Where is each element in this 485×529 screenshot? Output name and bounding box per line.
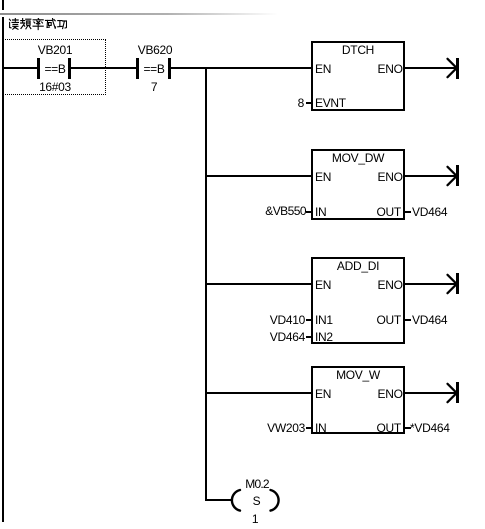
- box U2 pin OUT: [377, 206, 401, 218]
- wire: trunk branch to box U4 (MOV_W): [205, 392, 312, 394]
- coil M0.2 label: [227, 478, 287, 490]
- box U4 pin EN: [315, 388, 331, 400]
- contact VB620 label: [125, 44, 185, 56]
- contact VB201 right bar: [68, 58, 71, 79]
- coil operand 1: [225, 513, 285, 525]
- network separator line: [0, 13, 278, 15]
- box U4 pin OUT: [377, 422, 401, 434]
- box U3 IN1 operand VD410: [270, 314, 305, 326]
- wire: U4 OUT pin stub: [405, 427, 411, 429]
- wire: U2 OUT pin stub: [405, 211, 411, 213]
- box U3 OUT operand VD464: [412, 314, 447, 326]
- open-rung arrow after U3: [456, 273, 459, 294]
- 功: [58, 21, 62, 27]
- wire: U3 OUT pin stub: [405, 319, 411, 321]
- box U4 IN operand VW203: [267, 422, 305, 434]
- box U4 MOV_W: [311, 366, 405, 434]
- open-rung arrow after U1: [456, 58, 459, 79]
- box U2 MOV_DW: [311, 149, 405, 220]
- wire: U4 IN pin stub: [306, 427, 311, 429]
- box U2 pin EN: [315, 171, 331, 183]
- coil S text: [227, 495, 287, 507]
- wire: vertical trunk junction line: [205, 67, 207, 501]
- box U3 pin ENO: [378, 279, 403, 291]
- wire: U3 ENO output: [405, 283, 457, 285]
- open-rung arrow after U4: [456, 382, 459, 403]
- box U3 pin EN: [315, 279, 331, 291]
- box U1 EVNT operand 8: [298, 97, 304, 109]
- wire: trunk branch to coil: [205, 499, 231, 501]
- contact VB620 left bar: [136, 58, 139, 79]
- wire: stub of previous network's left power rail: [2, 0, 4, 10]
- box U3 pin OUT: [377, 314, 401, 326]
- box U1 pin EVNT: [315, 97, 346, 109]
- wire: EVNT pin stub: [306, 102, 311, 104]
- selection box (dashed) around contact VB201: [3, 39, 106, 95]
- box U2 title MOV_DW: [313, 152, 403, 164]
- box U4 title MOV_W: [313, 369, 403, 381]
- 频: [21, 19, 25, 29]
- box U4 OUT operand *VD464: [410, 422, 450, 434]
- box U1 DTCH: [311, 41, 405, 111]
- wire: U1 ENO output: [405, 67, 457, 69]
- box U3 pin IN2: [315, 331, 333, 343]
- box U1 title DTCH: [313, 44, 403, 56]
- box U1 pin EN: [315, 63, 331, 75]
- box U3 title ADD_DI: [313, 260, 403, 272]
- wire: trunk branch to box U2 (MOV_DW): [205, 175, 312, 177]
- contact VB620 compare text ==B: [141, 63, 167, 75]
- box U2 pin IN: [315, 206, 326, 218]
- contact VB201 operand 16#03: [25, 81, 85, 93]
- coil set (S): [229, 488, 281, 513]
- wire: U2 IN pin stub: [306, 211, 311, 213]
- box U3 ADD_DI: [311, 257, 405, 344]
- box U4 pin ENO: [378, 388, 403, 400]
- wire: contact VB201 to contact VB620: [71, 67, 137, 69]
- box U2 pin ENO: [378, 171, 403, 183]
- left power rail: [2, 17, 4, 522]
- box U3 IN2 operand VD464: [270, 331, 305, 343]
- wire: contact VB620 to box U1 (DTCH): [171, 67, 311, 69]
- wire: U2 ENO output: [405, 175, 457, 177]
- wire: trunk branch to box U3 (ADD_DI): [205, 283, 312, 285]
- contact VB201 left bar: [37, 58, 40, 79]
- box U2 IN operand &VB550: [265, 205, 306, 217]
- wire: U4 ENO output: [405, 392, 457, 394]
- 率: [33, 18, 43, 20]
- box U3 pin IN1: [315, 314, 333, 326]
- contact VB620 right bar: [168, 58, 171, 79]
- 成: [45, 20, 52, 27]
- wire: U3 IN1 pin stub: [306, 319, 311, 321]
- contact VB201 compare text ==B: [42, 63, 68, 75]
- contact VB620 operand 7: [124, 81, 184, 93]
- box U1 pin ENO: [378, 63, 403, 75]
- box U4 pin IN: [315, 422, 326, 434]
- wire: U3 IN2 pin stub: [306, 336, 311, 338]
- contact VB201 label: [25, 44, 85, 56]
- box U2 OUT operand VD464: [412, 206, 447, 218]
- wire: rail to contact VB201: [4, 67, 37, 69]
- open-rung arrow after U2: [456, 165, 459, 186]
- 读: [9, 19, 11, 28]
- network comment text 读频率成功: [8, 18, 67, 31]
